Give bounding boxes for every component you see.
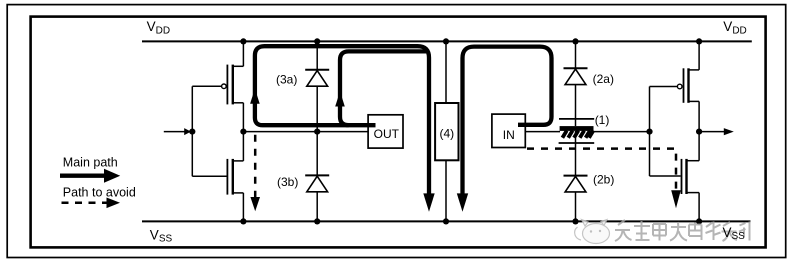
wire: left gate connector vertical (191, 86, 193, 176)
path to avoid dashed: right (from IN under resistor through right NMOS) (527, 149, 681, 209)
main path thick: IN loop (from IN box up, over left, down to VSS arrow) (457, 47, 552, 212)
node dots mid row (189, 129, 702, 135)
node dots VDD rail (240, 38, 702, 44)
box (4) (435, 41, 458, 221)
transistor M4 right NMOS (650, 132, 700, 222)
diode 2a (564, 41, 588, 119)
svg-text:(3a): (3a) (276, 72, 297, 86)
transistor M2 left NMOS (192, 132, 243, 222)
diode 3b (305, 132, 329, 222)
OUT box (368, 115, 403, 148)
svg-text:Main path: Main path (63, 155, 118, 169)
transistor M3 right PMOS (650, 41, 700, 131)
svg-text:OUT: OUT (374, 127, 400, 141)
wire: right inverter output arrow (699, 128, 734, 135)
diode 3a (305, 41, 329, 131)
legend: Main path (60, 155, 120, 182)
IN box (492, 114, 525, 147)
svg-text:(2a): (2a) (593, 72, 614, 86)
path to avoid dashed: left (through NMOS to VSS) (250, 135, 260, 211)
watermark logo (cat sketch) (575, 220, 610, 244)
watermark text (stylized hanzi strokes) (615, 220, 750, 241)
wire: IN box to resistor (525, 131, 560, 133)
svg-text:IN: IN (503, 128, 515, 142)
transistor M1 left PMOS (192, 41, 243, 131)
svg-text:(1): (1) (595, 113, 610, 127)
VDD rail (142, 40, 752, 42)
svg-text:(3b): (3b) (277, 175, 298, 189)
legend: Path to avoid (62, 185, 136, 208)
VSS rail (142, 220, 751, 222)
wire: resistor to right inverter input (594, 131, 650, 133)
node dots VSS rail (240, 218, 702, 224)
main path thick: OUT loop outer (up beside PMOS, over, down to VSS arrow) (250, 46, 435, 212)
main path thick: OUT loop inner (up beside diode 3a, over, joins down arrow) (335, 51, 427, 125)
diode 2b (564, 176, 588, 222)
svg-text:(4): (4) (439, 127, 454, 141)
svg-text:Path to avoid: Path to avoid (63, 185, 136, 199)
wire: left inverter input stub with arrow (164, 128, 191, 135)
resistor (1) (559, 119, 595, 176)
wire: right gate connector vertical (649, 87, 651, 177)
wire: left output node to OUT box (243, 131, 368, 133)
svg-text:(2b): (2b) (593, 173, 614, 187)
